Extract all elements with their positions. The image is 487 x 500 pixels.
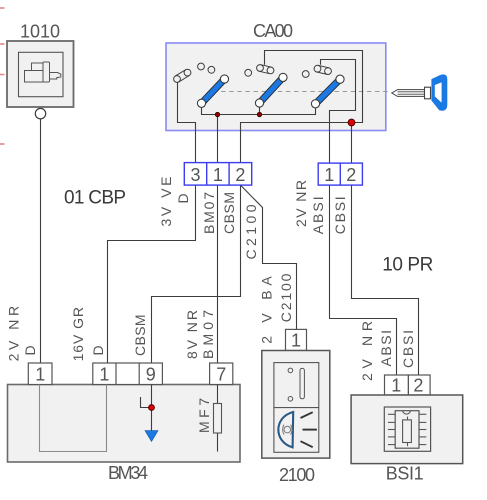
svg-text:01 CBP: 01 CBP (64, 188, 126, 209)
svg-text:2V NR: 2V NR (293, 180, 309, 227)
svg-text:8V NR: 8V NR (184, 310, 200, 359)
svg-text:BM07: BM07 (200, 310, 216, 359)
svg-text:1: 1 (291, 330, 301, 350)
svg-text:CBSI: CBSI (400, 330, 416, 368)
svg-text:BM07: BM07 (201, 192, 217, 234)
svg-text:ABSI: ABSI (378, 330, 394, 367)
svg-text:C2100: C2100 (278, 273, 294, 322)
svg-text:1: 1 (99, 365, 109, 385)
svg-text:C2100: C2100 (243, 204, 259, 259)
svg-text:BSI1: BSI1 (386, 464, 424, 484)
svg-text:2: 2 (235, 165, 245, 185)
svg-text:7: 7 (216, 365, 226, 385)
svg-text:D: D (22, 345, 38, 355)
svg-text:CBSM: CBSM (132, 314, 148, 356)
svg-text:MF7: MF7 (196, 398, 212, 433)
svg-text:CBSM: CBSM (221, 192, 237, 234)
svg-text:1: 1 (213, 165, 223, 185)
svg-text:2: 2 (346, 165, 356, 185)
svg-text:16V GR: 16V GR (70, 307, 86, 361)
svg-text:9: 9 (146, 365, 156, 385)
svg-text:CA00: CA00 (253, 21, 293, 41)
svg-text:1010: 1010 (20, 22, 60, 42)
svg-text:3V VE: 3V VE (158, 177, 174, 227)
svg-text:1: 1 (391, 375, 401, 395)
svg-text:1: 1 (35, 365, 45, 385)
svg-text:CBSI: CBSI (332, 196, 348, 234)
svg-text:D: D (90, 345, 106, 355)
svg-text:2: 2 (413, 375, 423, 395)
svg-text:3: 3 (190, 165, 200, 185)
svg-text:2100: 2100 (279, 465, 315, 485)
svg-text:1: 1 (324, 165, 334, 185)
svg-text:D: D (175, 193, 191, 203)
svg-text:BM34: BM34 (108, 463, 148, 483)
svg-text:10 PR: 10 PR (382, 255, 433, 276)
